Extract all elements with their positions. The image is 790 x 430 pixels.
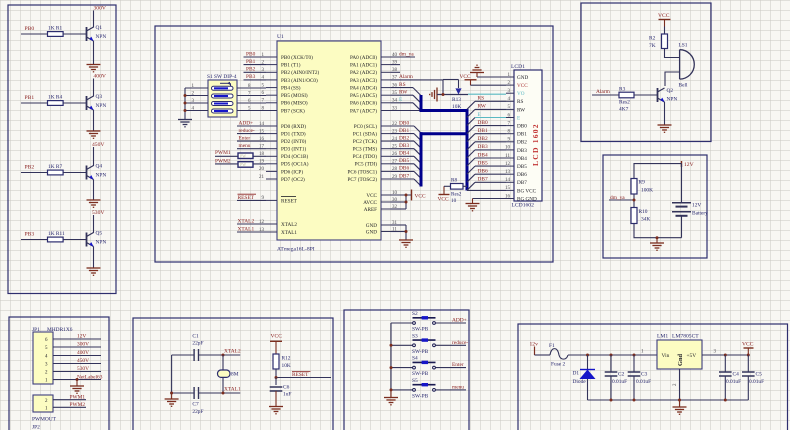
svg-text:C6: C6: [283, 385, 290, 391]
svg-text:PD0 (RXD): PD0 (RXD): [281, 123, 306, 130]
svg-text:PA5 (ADC5): PA5 (ADC5): [350, 92, 377, 99]
wire S1 pin4: [185, 106, 208, 111]
wire VCC to R2: [664, 27, 666, 35]
svg-text:DB3: DB3: [517, 148, 527, 154]
svg-text:NPN: NPN: [96, 103, 107, 109]
svg-text:XTAL2: XTAL2: [238, 219, 255, 225]
svg-text:PB3: PB3: [25, 232, 35, 238]
svg-text:U1: U1: [277, 34, 284, 40]
net label 300V (JP1-5): [53, 342, 101, 348]
wire S1 pin5 to PB7: [237, 106, 266, 111]
switch S5 SW-PB: [412, 378, 436, 400]
svg-text:7K: 7K: [649, 43, 656, 49]
svg-text:12v: 12v: [530, 341, 539, 347]
svg-text:XTAL2: XTAL2: [224, 349, 241, 355]
wire R11 to Q5 base: [63, 239, 86, 241]
wire PB2 to R7: [21, 172, 48, 174]
svg-text:RW: RW: [517, 107, 525, 113]
svg-text:22pF: 22pF: [192, 409, 203, 415]
svg-text:DB6: DB6: [399, 166, 409, 172]
transistor Q3 NPN: [87, 94, 107, 110]
wire R7 to Q4 base: [63, 172, 86, 174]
wire S3 left: [391, 344, 413, 346]
svg-text:PC1 (SDA): PC1 (SDA): [353, 131, 377, 138]
svg-text:DB1: DB1: [399, 128, 409, 134]
svg-text:SW-PB: SW-PB: [412, 393, 429, 399]
svg-text:1K R7: 1K R7: [48, 164, 63, 170]
svg-text:XTAL2: XTAL2: [281, 222, 297, 228]
svg-text:R9: R9: [639, 180, 646, 186]
bus horizontal H1: [420, 109, 468, 112]
svg-text:300V: 300V: [94, 6, 106, 12]
pin 5 PB4: [262, 83, 301, 91]
wire R8 to bus/pin15: [466, 185, 467, 187]
svg-text:DB0: DB0: [517, 124, 527, 130]
pin 11 DB4 (LCD): [505, 154, 527, 162]
net label DB6 (MCU): [391, 166, 421, 179]
ground battery block: [650, 238, 664, 251]
ground keys: [384, 391, 398, 405]
svg-text:VCC: VCC: [271, 333, 283, 339]
svg-text:PB2: PB2: [246, 67, 256, 73]
pin 16 BG GND (LCD): [505, 194, 537, 202]
net label Enter: [436, 362, 467, 368]
speaker LS1 Bell: [679, 43, 695, 89]
svg-text:PA3 (ADC3): PA3 (ADC3): [350, 77, 377, 84]
svg-text:300V: 300V: [77, 342, 89, 348]
junction dot pot/ground: [442, 93, 445, 96]
svg-text:C2: C2: [618, 372, 625, 378]
svg-text:DB3: DB3: [399, 143, 409, 149]
net label DB0 (MCU): [391, 120, 421, 133]
net label PB3: [244, 74, 267, 80]
svg-text:LM7805CT: LM7805CT: [672, 334, 699, 340]
svg-text:PB5 (MOSI): PB5 (MOSI): [281, 92, 308, 99]
net label 450V (JP1-3): [53, 358, 101, 364]
ground under Q3: [87, 131, 101, 138]
svg-text:PC7 (TOSC2): PC7 (TOSC2): [348, 176, 378, 183]
junction dot divider node: [633, 199, 636, 202]
net label RW (LCD): [467, 104, 506, 118]
svg-text:D1: D1: [573, 371, 580, 377]
block border: keys: [344, 310, 469, 430]
svg-text:PC5 (TDI): PC5 (TDI): [355, 161, 378, 168]
wire R4 to Q3 base: [63, 102, 86, 104]
ground under Q5: [87, 268, 101, 275]
wire bell to Q2 collector: [665, 72, 680, 86]
svg-text:JP2: JP2: [32, 425, 40, 430]
wire XTAL2: [199, 349, 241, 355]
svg-text:S5: S5: [412, 378, 418, 384]
LCD1 LCD1602 body: [511, 64, 542, 209]
wire pin 33: [391, 110, 421, 112]
pin 3 PB2: [262, 68, 320, 76]
svg-text:15: 15: [505, 186, 511, 191]
svg-text:0.01uF: 0.01uF: [636, 379, 651, 385]
svg-text:dm_ya: dm_ya: [610, 195, 625, 201]
svg-text:ADD+: ADD+: [452, 318, 467, 324]
svg-text:Alarm: Alarm: [399, 74, 414, 80]
svg-text:menu: menu: [239, 143, 251, 149]
wire Q2 emitter to ground: [664, 102, 666, 125]
net label DB5 (LCD): [467, 160, 506, 174]
pin 10 VCC: [366, 191, 397, 199]
svg-text:RS: RS: [399, 82, 406, 88]
svg-text:Bell: Bell: [679, 83, 688, 89]
wire 450V to Q4 collector: [93, 147, 95, 166]
svg-text:S1 SW DIP-4: S1 SW DIP-4: [207, 74, 237, 80]
transistor Q1 NPN: [87, 25, 107, 41]
svg-text:PWM2: PWM2: [70, 402, 86, 408]
net label ADD+: [436, 318, 467, 324]
svg-text:10K: 10K: [452, 104, 461, 110]
svg-text:0.01uF: 0.01uF: [749, 379, 764, 385]
pin 9 DB2 (LCD): [506, 138, 527, 146]
net label PB0: [244, 51, 267, 57]
potentiometer R13 10K: [437, 80, 468, 111]
wire VCC group vertical: [405, 195, 407, 209]
svg-text:Battery: Battery: [692, 211, 708, 217]
net label DB1 (MCU): [391, 128, 421, 141]
wire AREF pin32: [391, 208, 406, 210]
svg-text:PD5 (OC1A): PD5 (OC1A): [281, 161, 309, 168]
net label DB0 (LCD): [467, 120, 506, 134]
net label DB2 (MCU): [391, 135, 421, 148]
svg-text:R2: R2: [649, 36, 656, 42]
wire 530V to Q5 collector: [93, 215, 95, 233]
capacitor C7 22pF: [192, 387, 203, 415]
net label DB3 (MCU): [391, 143, 421, 156]
wire pin 39: [391, 64, 400, 66]
pin 16 PD2: [259, 137, 306, 145]
ground (inverted) LCD pin1: [470, 65, 484, 77]
svg-text:Fuse 2: Fuse 2: [551, 361, 566, 367]
net label PWM2 (JP2-1): [53, 402, 86, 408]
svg-text:PC4 (TDO): PC4 (TDO): [353, 153, 378, 160]
svg-text:450V: 450V: [77, 358, 89, 364]
wire S1 pin2: [185, 91, 208, 96]
capacitor C3 0.01uF: [628, 355, 651, 400]
svg-text:RS: RS: [478, 96, 485, 102]
svg-text:C3: C3: [641, 372, 648, 378]
svg-text:PWM1: PWM1: [70, 394, 86, 400]
junction dot XTAL1: [222, 392, 225, 395]
wire crystal top: [222, 355, 224, 370]
capacitor C4 0.01uF: [719, 355, 741, 400]
svg-text:MHDR1X6: MHDR1X6: [47, 327, 73, 333]
svg-text:4K7: 4K7: [619, 107, 629, 113]
switch S1 SW DIP-4: [207, 74, 237, 117]
block border: transistor bank: [8, 5, 116, 294]
pin 12 XTAL2: [259, 220, 297, 228]
svg-text:DB1: DB1: [478, 128, 488, 134]
wire R2 to bell: [665, 49, 680, 58]
pin 38 PA2: [350, 68, 398, 76]
crystal 8M: [218, 370, 239, 378]
wire S5 left: [391, 389, 413, 391]
junction dots +5V rail: [724, 354, 750, 357]
wire S1 pin7 to PB5: [237, 91, 266, 96]
svg-text:DB7: DB7: [399, 173, 409, 179]
wire S1 pin1: [185, 84, 208, 89]
pin 23 PC1: [353, 129, 398, 137]
net label NetLabel63 (JP1-1): [53, 374, 103, 380]
svg-text:22pF: 22pF: [192, 341, 203, 347]
pin 25 PC3: [353, 145, 398, 153]
svg-text:NPN: NPN: [96, 34, 107, 40]
pin 31 GND: [366, 221, 398, 229]
resistor R2 7K: [649, 34, 668, 49]
net label E (LCD): [467, 112, 506, 126]
pin 36 PA4: [350, 83, 398, 91]
pin 22 PC0: [354, 122, 398, 130]
pin 18 PD4: [259, 152, 309, 160]
pin 7 PB6: [262, 99, 308, 107]
wire XTAL1: [199, 387, 241, 393]
wire PB3 to R11: [21, 239, 48, 241]
wire R1 to Q1 base: [63, 33, 86, 35]
svg-text:GND: GND: [366, 229, 377, 235]
block border: MCU/LCD center: [155, 26, 553, 262]
svg-text:PWM1: PWM1: [215, 150, 231, 156]
svg-text:LCD1: LCD1: [511, 64, 525, 70]
svg-text:530V: 530V: [77, 366, 89, 372]
svg-text:PW: PW: [240, 162, 246, 167]
svg-text:Q5: Q5: [96, 231, 103, 237]
svg-text:XTAL1: XTAL1: [281, 230, 297, 236]
netlabel box on PD4 wire: [238, 153, 253, 159]
svg-text:VCC: VCC: [742, 342, 754, 348]
svg-text:400V: 400V: [77, 350, 89, 356]
net label DB4 (LCD): [467, 152, 506, 166]
block border: battery divider: [603, 155, 707, 258]
wire GND pin31: [391, 224, 406, 226]
junction dots ground rail: [610, 399, 727, 402]
svg-text:PA2 (ADC2): PA2 (ADC2): [350, 69, 377, 76]
svg-text:BG GND: BG GND: [517, 196, 537, 202]
ground LCD pin16: [466, 204, 480, 211]
svg-text:DB2: DB2: [478, 136, 488, 142]
net label 530V (JP1-2): [53, 366, 101, 372]
fuse F1 Fuse 2: [549, 343, 568, 367]
bus vertical V2: [420, 132, 423, 186]
net label DB3 (LCD): [467, 144, 506, 158]
net label reduce-: [436, 340, 469, 346]
block border: power supply: [518, 324, 788, 430]
svg-text:Enter: Enter: [239, 135, 251, 141]
power port VCC (pin10): [412, 190, 426, 201]
resistor R8 Res2 10: [451, 178, 468, 205]
pin 32 AREF: [364, 205, 398, 213]
svg-text:DB3: DB3: [478, 144, 488, 150]
svg-text:PA1 (ADC1): PA1 (ADC1): [350, 62, 377, 69]
svg-text:8M: 8M: [231, 372, 239, 378]
svg-text:13: 13: [505, 170, 511, 175]
wire Q1 emitter to ground: [93, 41, 95, 65]
ground (sideways) at R13: [430, 88, 437, 102]
wire S1 pin8 to PB4: [237, 84, 266, 89]
svg-text:VCC: VCC: [517, 83, 528, 89]
wire Q5 emitter to ground: [93, 247, 95, 269]
svg-text:AREF: AREF: [364, 207, 377, 213]
wire AVCC pin30: [391, 201, 406, 203]
pin 27 PC5: [355, 160, 398, 168]
wire VO (cyan) to LCD pin3: [468, 93, 506, 95]
bus vertical V0: [420, 95, 423, 111]
wire S2 left: [391, 322, 413, 324]
wire keys common rail: [390, 323, 392, 391]
net label DB2 (LCD): [467, 136, 506, 150]
net label 12V (JP1-6): [53, 334, 101, 340]
switch S2 SW-PB: [412, 311, 436, 333]
wire S1 common rail: [184, 88, 186, 120]
pin 30 AVCC: [363, 198, 397, 206]
svg-text:VO: VO: [517, 91, 525, 97]
svg-text:PC2 (TCK): PC2 (TCK): [353, 138, 377, 145]
pin 1 GND (LCD): [506, 73, 528, 81]
wire LCD pin15: [467, 189, 506, 191]
op-amp U1 ATmega16L body: [277, 34, 381, 253]
svg-text:dm_ya: dm_ya: [399, 51, 414, 57]
net label RS (MCU): [391, 82, 421, 96]
net label reduce-: [237, 128, 266, 134]
svg-text:PA4 (ADC4): PA4 (ADC4): [350, 85, 377, 92]
pin 17 PD3: [259, 145, 306, 153]
net label dm_ya: [391, 51, 415, 57]
pin 6 PB5: [262, 91, 308, 99]
svg-text:menu: menu: [452, 385, 464, 391]
diode D1: [573, 355, 596, 400]
ground crystal: [165, 393, 179, 406]
power port 12V: [682, 161, 694, 168]
ground JP1: [70, 378, 84, 393]
svg-text:R10: R10: [639, 209, 648, 215]
svg-text:DB5: DB5: [399, 158, 409, 164]
power port VCC (LCD pin2): [460, 74, 477, 85]
wire R9 to node: [633, 194, 635, 208]
wire LM7805 gnd pin: [679, 369, 681, 400]
svg-text:10K: 10K: [282, 363, 291, 369]
svg-text:10: 10: [451, 198, 457, 204]
pin 15 PD1: [259, 129, 306, 137]
pin 12 DB5 (LCD): [505, 162, 527, 170]
svg-text:PD4 (OC1B): PD4 (OC1B): [281, 153, 309, 160]
junction dots S1 rail: [184, 94, 187, 112]
svg-text:E: E: [517, 115, 520, 121]
net label PB1: [244, 59, 267, 65]
pin 8 DB1 (LCD): [506, 130, 527, 138]
ground under Q4: [87, 200, 101, 207]
svg-text:DB7: DB7: [517, 180, 527, 186]
pin 13 DB6 (LCD): [505, 170, 527, 178]
svg-text:Gnd: Gnd: [677, 353, 684, 366]
svg-text:R8: R8: [451, 178, 457, 184]
svg-text:PB1: PB1: [246, 59, 256, 65]
pin 8 PB7: [262, 106, 306, 114]
svg-text:20: 20: [259, 167, 265, 172]
resistor R7 1K: [48, 164, 64, 175]
switch S4 SW-PB: [412, 356, 436, 378]
connector JP1 MHDR1X6: [32, 327, 73, 384]
pin 5 RW (LCD): [506, 105, 525, 113]
svg-text:34K: 34K: [641, 217, 650, 223]
svg-text:DB0: DB0: [478, 120, 488, 126]
pin 1 PB0: [262, 53, 314, 61]
wire R3 to Q2 base: [634, 94, 658, 96]
wire +5V rail: [702, 354, 749, 356]
pin 34 PA6: [350, 99, 398, 107]
wire C7 left: [172, 392, 194, 394]
svg-text:PB0: PB0: [246, 51, 256, 57]
wire 400V to Q3 collector: [93, 79, 95, 97]
svg-text:PB7 (SCK): PB7 (SCK): [281, 107, 305, 114]
capacitor C5 0.01uF: [742, 355, 764, 400]
transistor Q4 NPN: [87, 164, 107, 180]
net label dm_ya: [609, 195, 634, 201]
svg-text:PB0: PB0: [25, 26, 35, 32]
net label DB4 (MCU): [391, 151, 421, 164]
svg-text:SW-PB: SW-PB: [412, 349, 429, 355]
capacitor C2 0.01uF: [605, 355, 627, 400]
pin 4 PB3: [262, 76, 319, 84]
resistor R11 1K: [48, 231, 66, 242]
svg-text:VCC: VCC: [415, 193, 426, 199]
svg-text:R13: R13: [452, 97, 461, 103]
svg-text:reduce-: reduce-: [452, 340, 468, 346]
pin 3 VO (LCD): [506, 89, 525, 97]
svg-text:XTAL1: XTAL1: [238, 227, 255, 233]
wire C1 left: [172, 354, 194, 356]
wire bottom rail battery block: [634, 224, 682, 238]
svg-text:PD7 (OC2): PD7 (OC2): [281, 176, 305, 183]
net label Alarm: [391, 74, 443, 80]
svg-text:LCD 1602: LCD 1602: [531, 123, 540, 166]
wire GND group vertical: [405, 225, 407, 240]
svg-text:11: 11: [505, 154, 510, 159]
svg-text:Q1: Q1: [96, 25, 103, 31]
svg-text:RESET: RESET: [238, 195, 255, 201]
block border: crystal/reset: [133, 318, 333, 430]
wire VCC to LCD pin2: [471, 84, 507, 86]
block border: alarm bell: [581, 3, 711, 142]
battery 12V: [672, 164, 708, 238]
wire R12 to node: [275, 369, 277, 378]
svg-text:Q4: Q4: [96, 164, 103, 170]
svg-text:1K R1: 1K R1: [48, 26, 63, 32]
svg-text:Diode: Diode: [573, 379, 587, 385]
svg-text:S3: S3: [412, 333, 418, 339]
pin 15 BG VCC (LCD): [505, 186, 537, 194]
svg-text:DB2: DB2: [399, 135, 409, 141]
svg-text:R3: R3: [619, 87, 626, 93]
ground power supply: [673, 400, 687, 414]
junction dot XTAL2: [222, 354, 225, 357]
svg-text:AVCC: AVCC: [363, 200, 377, 206]
pin 26 PC4: [353, 152, 398, 160]
svg-text:PC0 (SCL): PC0 (SCL): [354, 123, 377, 130]
wire 12v to fuse: [535, 354, 551, 356]
ground under Q1: [87, 65, 101, 72]
svg-text:PC6 (TOSC1): PC6 (TOSC1): [348, 168, 378, 175]
ground C6: [269, 391, 283, 414]
svg-text:PB6 (MISO): PB6 (MISO): [281, 100, 308, 107]
junction dots VCC group: [405, 194, 408, 204]
wire Q4 emitter to ground: [93, 180, 95, 201]
svg-text:DB4: DB4: [517, 156, 527, 162]
capacitor C1 22pF: [192, 333, 203, 361]
svg-text:Q3: Q3: [96, 94, 103, 100]
svg-text:400V: 400V: [94, 74, 106, 80]
